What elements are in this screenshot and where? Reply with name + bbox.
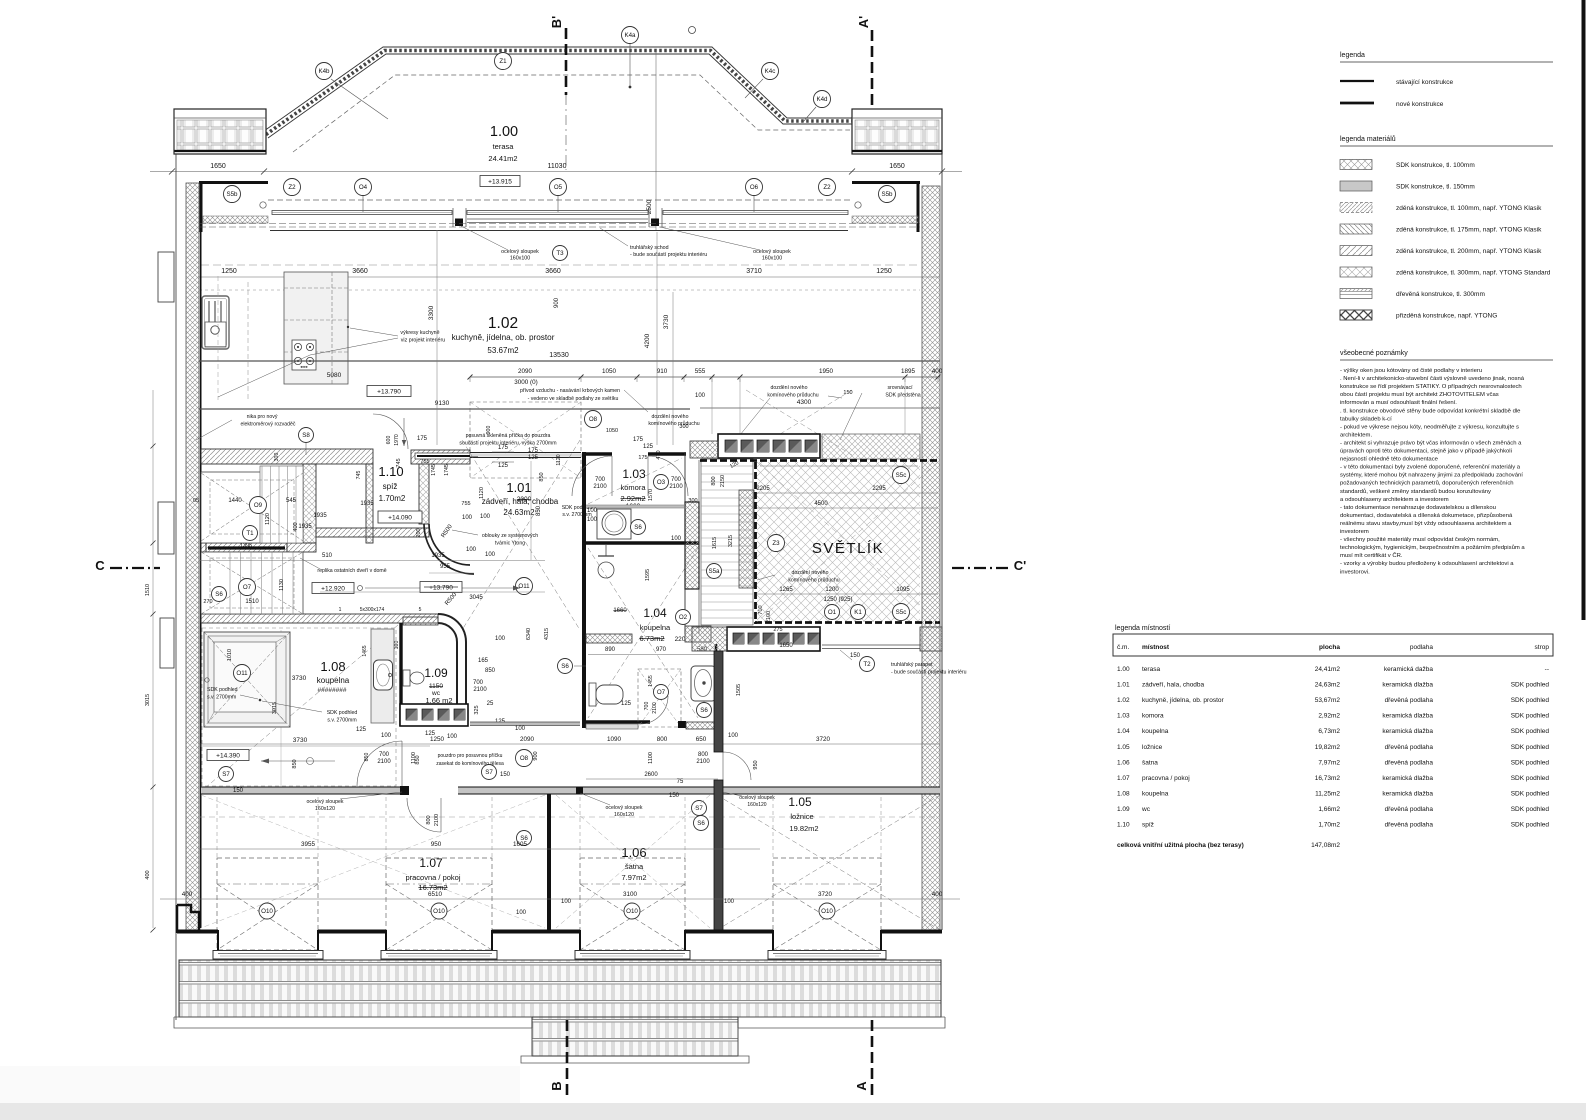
svg-text:1100: 1100 — [648, 752, 654, 764]
svg-text:pracovna / pokoj: pracovna / pokoj — [1142, 775, 1190, 782]
svg-text:komora: komora — [620, 483, 646, 492]
svg-text:součástí projektu interiéru, v: součástí projektu interiéru, výška 2700m… — [459, 441, 556, 447]
svg-text:910: 910 — [657, 368, 668, 375]
R500 arc wall lower (wc) — [438, 614, 466, 726]
wc flue block — [400, 704, 468, 726]
svg-text:S7: S7 — [485, 769, 493, 776]
svg-text:1950: 1950 — [819, 368, 834, 375]
svg-text:800: 800 — [698, 752, 709, 758]
svg-text:1100: 1100 — [411, 752, 417, 764]
svg-text:400: 400 — [182, 891, 193, 898]
material swatch 8 — [1340, 310, 1372, 320]
svg-text:O5: O5 — [554, 184, 563, 191]
svg-text:6510: 6510 — [428, 891, 443, 898]
svg-text:dřevěná podlaha: dřevěná podlaha — [1385, 759, 1434, 766]
svg-text:1745: 1745 — [431, 464, 437, 476]
svg-text:100: 100 — [447, 734, 458, 740]
svg-text:komínového průduchu: komínového průduchu — [788, 577, 839, 584]
svg-text:2.92m2: 2.92m2 — [620, 494, 645, 503]
svg-text:1.03: 1.03 — [1117, 713, 1130, 720]
svg-text:A': A' — [856, 16, 871, 28]
svg-text:1120: 1120 — [479, 487, 485, 499]
bottom gray strip — [0, 1103, 1586, 1120]
svg-text:- tato dokumentace nenahrazuje: - tato dokumentace nenahrazuje dodavatel… — [1340, 505, 1496, 511]
svg-text:+14.090: +14.090 — [388, 515, 412, 522]
svg-text:Z1: Z1 — [499, 58, 507, 65]
K markers — [316, 63, 333, 80]
svg-text:dozdění nového: dozdění nového — [771, 385, 808, 391]
svg-text:podlaha: podlaha — [1410, 644, 1434, 651]
svg-text:125: 125 — [356, 727, 367, 733]
svg-text:1650: 1650 — [889, 163, 905, 170]
svg-text:ložnice: ložnice — [1142, 744, 1163, 751]
svg-text:150: 150 — [669, 793, 680, 799]
svg-text:745: 745 — [396, 458, 402, 467]
svg-text:100: 100 — [485, 552, 496, 558]
staircase upper flight — [201, 472, 303, 543]
svg-text:########: ######## — [318, 687, 347, 694]
svg-text:160x120: 160x120 — [747, 802, 766, 808]
svg-text:100: 100 — [480, 514, 491, 520]
svg-text:SDK podhled: SDK podhled — [1511, 806, 1550, 813]
svg-text:100: 100 — [671, 536, 682, 542]
svg-text:150: 150 — [233, 788, 244, 794]
svg-text:2100: 2100 — [669, 484, 683, 490]
svg-text:O11: O11 — [518, 583, 530, 590]
svg-text:plocha: plocha — [1319, 644, 1340, 651]
svg-text:nejasností ohledně této dokume: nejasností ohledně této dokumentace — [1340, 457, 1439, 463]
svg-text:24.41m2: 24.41m2 — [488, 154, 517, 163]
svg-text:reálnému stavu stavby,musí být: reálnému stavu stavby,musí být vždy odso… — [1340, 521, 1512, 527]
svg-text:1.09: 1.09 — [424, 666, 448, 680]
svg-text:ocelový sloupek: ocelový sloupek — [501, 249, 539, 255]
svg-text:1510: 1510 — [145, 584, 151, 596]
svg-text:SDK podhled: SDK podhled — [1511, 682, 1550, 689]
svg-text:+12.920: +12.920 — [321, 586, 345, 593]
svg-text:legenda: legenda — [1340, 52, 1365, 59]
svg-text:dřevěná podlaha: dřevěná podlaha — [1385, 744, 1434, 751]
svg-text:3100: 3100 — [623, 891, 638, 898]
svg-text:S5c: S5c — [896, 609, 907, 616]
washing machine — [597, 509, 631, 539]
svg-text:2600: 2600 — [644, 772, 658, 778]
svg-text:125: 125 — [498, 463, 509, 469]
svg-text:1090: 1090 — [607, 736, 622, 743]
svg-text:100: 100 — [695, 393, 706, 399]
svg-text:970: 970 — [656, 647, 667, 653]
svg-text:+13.790: +13.790 — [429, 585, 453, 592]
svg-text:850: 850 — [364, 753, 370, 762]
svg-text:pracovna / pokoj: pracovna / pokoj — [405, 873, 460, 882]
bathtub right of 1.04 — [691, 666, 716, 701]
svg-text:keramická dlažba: keramická dlažba — [1382, 790, 1433, 797]
svg-text:investorovi.: investorovi. — [1340, 569, 1370, 575]
svg-text:3015: 3015 — [145, 694, 151, 706]
svg-text:+13.790: +13.790 — [377, 389, 401, 396]
svg-text:SVĚTLÍK: SVĚTLÍK — [812, 540, 884, 557]
svg-text:šatna: šatna — [625, 862, 644, 871]
svg-text:požadovaných technických param: požadovaných technických parametrů, dopo… — [1340, 480, 1514, 487]
svg-text:. Není-li v architekonicko-sta: . Není-li v architekonicko-stavební část… — [1340, 376, 1525, 382]
svg-text:100: 100 — [516, 910, 527, 916]
svg-text:1605: 1605 — [513, 841, 528, 848]
svg-text:investorem: investorem — [1340, 529, 1369, 535]
svg-text:komínového průduchu: komínového průduchu — [767, 392, 818, 399]
svg-text:6.73m2: 6.73m2 — [639, 634, 664, 643]
svg-text:150: 150 — [500, 772, 511, 778]
svg-text:165: 165 — [478, 658, 489, 664]
svg-text:1265: 1265 — [779, 587, 793, 593]
svg-text:truhlářský schod: truhlářský schod — [630, 245, 669, 251]
svg-text:1.08: 1.08 — [320, 659, 345, 674]
svg-text:keramická dlažba: keramická dlažba — [1382, 713, 1433, 720]
bottom exterior wall — [177, 930, 218, 934]
dormer guide dashed verticals — [216, 797, 218, 858]
svg-text:755: 755 — [461, 501, 470, 507]
svg-text:1.02: 1.02 — [1117, 697, 1130, 704]
svg-text:3720: 3720 — [816, 736, 831, 743]
dims above H4 — [199, 743, 940, 745]
svg-text:4200: 4200 — [644, 333, 651, 348]
staircase lower flight — [201, 552, 303, 614]
svetlik area — [757, 462, 920, 622]
svg-text:4315: 4315 — [544, 628, 550, 640]
door 1.08 — [357, 741, 402, 786]
svg-text:keramická dlažba: keramická dlažba — [1382, 775, 1433, 782]
svg-text:S7: S7 — [222, 771, 230, 778]
svg-text:175: 175 — [633, 437, 644, 443]
svg-text:informován a musí odsouhlasit: informován a musí odsouhlasit finální ře… — [1340, 400, 1457, 406]
svg-text:O10: O10 — [626, 908, 638, 915]
svg-text:2150: 2150 — [720, 475, 726, 487]
svg-text:SDK podhled: SDK podhled — [1511, 713, 1550, 720]
window below svetlik (O1) — [822, 644, 920, 646]
door arc spiz — [373, 414, 408, 449]
svg-text:1120: 1120 — [556, 454, 562, 465]
svg-text:+13.915: +13.915 — [488, 179, 512, 186]
svg-text:955: 955 — [440, 564, 451, 570]
hatch next to chimney bottom — [692, 627, 727, 651]
svg-text:kuchyně, jídelna, ob. prostor: kuchyně, jídelna, ob. prostor — [1142, 697, 1224, 704]
svg-text:SDK předstěna: SDK předstěna — [885, 393, 920, 399]
svg-text:100: 100 — [466, 547, 477, 553]
svg-text:160x120: 160x120 — [614, 812, 634, 818]
svg-text:6340: 6340 — [526, 628, 532, 640]
bottom room divider walls — [547, 794, 551, 930]
svg-text:510: 510 — [322, 553, 333, 559]
svg-text:3730: 3730 — [292, 675, 307, 682]
svg-text:100: 100 — [515, 726, 526, 732]
svg-text:ložnice: ložnice — [790, 812, 813, 821]
svg-text:1935: 1935 — [431, 553, 445, 559]
svg-text:16,73m2: 16,73m2 — [1315, 775, 1341, 782]
svg-text:19.82m2: 19.82m2 — [789, 824, 818, 833]
svg-text:1570: 1570 — [648, 489, 654, 501]
svg-text:600: 600 — [386, 436, 392, 445]
chimney block top — [718, 434, 820, 458]
svg-text:5: 5 — [419, 607, 422, 613]
svg-text:šatna: šatna — [1142, 759, 1158, 766]
svg-text:700: 700 — [379, 752, 390, 758]
svg-text:1650: 1650 — [210, 163, 226, 170]
svg-text:1.07: 1.07 — [1117, 775, 1130, 782]
svg-text:175: 175 — [638, 455, 647, 461]
svg-text:- bude součástí projektu inter: - bude součástí projektu interiéru — [630, 252, 707, 258]
material swatch 3 — [1340, 203, 1372, 213]
svg-text:220: 220 — [675, 636, 686, 643]
svg-text:terasa: terasa — [493, 142, 515, 151]
svg-text:900: 900 — [554, 297, 560, 308]
svg-text:S5a: S5a — [708, 568, 720, 575]
svg-text:1200: 1200 — [825, 587, 839, 593]
svg-text:2100: 2100 — [593, 484, 607, 490]
terrace roof edge band — [264, 47, 852, 138]
svg-text:SDK podhled: SDK podhled — [207, 687, 238, 693]
svg-text:147,08m2: 147,08m2 — [1311, 842, 1340, 849]
right exterior wall — [922, 186, 940, 930]
svg-text:1250: 1250 — [430, 736, 445, 743]
svg-text:545: 545 — [286, 498, 297, 504]
svg-text:2090: 2090 — [518, 368, 533, 375]
svg-text:S6: S6 — [561, 663, 569, 670]
dormer bay side walls + sills — [217, 930, 219, 952]
svg-text:SDK podhled: SDK podhled — [1511, 790, 1550, 797]
svg-text:2100: 2100 — [434, 814, 440, 826]
svg-text:1130: 1130 — [279, 579, 285, 591]
toilet 1.09 — [403, 670, 410, 686]
svg-text:S8: S8 — [302, 432, 310, 439]
svg-text:1895: 1895 — [901, 368, 916, 375]
svg-text:K4a: K4a — [624, 32, 636, 39]
svg-text:přizděná konstrukce, např. YTO: přizděná konstrukce, např. YTONG — [1396, 313, 1497, 320]
svg-text:konstrukce se řídí projektem S: konstrukce se řídí projektem STATIKY. O … — [1340, 384, 1522, 390]
svg-text:keramická dažba: keramická dažba — [1384, 666, 1434, 673]
svg-text:2295: 2295 — [872, 486, 886, 492]
svg-text:470: 470 — [656, 450, 662, 459]
svg-text:53,67m2: 53,67m2 — [1315, 697, 1341, 704]
svg-text:přívod vzduchu - nasávání krbo: přívod vzduchu - nasávání krbových kamen — [520, 388, 620, 394]
svg-text:3720: 3720 — [818, 891, 833, 898]
svg-text:19,82m2: 19,82m2 — [1315, 744, 1341, 751]
arrow 1.08 bottom — [261, 760, 335, 762]
svg-text:keramická dlažba: keramická dlažba — [1382, 682, 1433, 689]
svg-text:1935: 1935 — [360, 501, 374, 507]
sliding door pocket block — [411, 450, 470, 464]
material swatch 6 — [1340, 267, 1372, 277]
svg-text:replika ostatních dveří v domě: replika ostatních dveří v domě — [317, 568, 386, 574]
bottom-left corner step — [177, 905, 199, 933]
svg-text:O11: O11 — [236, 670, 248, 677]
svg-text:700: 700 — [671, 477, 682, 483]
pavement band — [179, 960, 941, 1017]
svg-text:11030: 11030 — [548, 163, 567, 170]
dormer X windows — [217, 858, 318, 950]
svg-text:1.70m2: 1.70m2 — [379, 494, 406, 503]
svg-text:dřevěná konstrukce, tl. 300mm: dřevěná konstrukce, tl. 300mm — [1396, 291, 1485, 298]
svg-text:technologickým, hygienickým,: technologickým, hygienickým, bezpečnostn… — [1340, 544, 1525, 551]
svg-text:K1: K1 — [854, 609, 862, 616]
svg-text:3045: 3045 — [469, 595, 483, 601]
kitchen inner wall edge — [200, 232, 202, 928]
svg-text:1250 (925): 1250 (925) — [823, 597, 852, 603]
svg-text:dozdění nového: dozdění nového — [652, 414, 689, 420]
svg-text:1.04: 1.04 — [643, 606, 667, 620]
svg-text:SDK podhled: SDK podhled — [327, 710, 358, 716]
svg-text:1660: 1660 — [613, 608, 627, 614]
svg-text:O7: O7 — [243, 584, 252, 591]
material swatch 4 — [1340, 224, 1372, 234]
svg-text:100: 100 — [728, 733, 739, 739]
svg-text:1050: 1050 — [606, 428, 618, 434]
1.08/1.09 divider — [399, 623, 402, 726]
svg-text:1.00: 1.00 — [490, 124, 518, 140]
svg-text:400: 400 — [932, 368, 943, 375]
ladder zone — [701, 459, 753, 625]
svg-text:legenda materiálů: legenda materiálů — [1340, 135, 1396, 143]
svg-text:S6: S6 — [634, 524, 642, 531]
svg-text:1150: 1150 — [429, 683, 443, 690]
svg-text:architektem.: architektem. — [1340, 432, 1372, 438]
svg-text:- architekt si vyhrazuje právo: - architekt si vyhrazuje právo být včas … — [1340, 440, 1522, 446]
svg-text:O10: O10 — [261, 908, 273, 915]
svg-text:Z3: Z3 — [772, 540, 780, 547]
svg-text:O10: O10 — [433, 908, 445, 915]
svg-text:1970: 1970 — [394, 434, 400, 446]
svg-text:1.10: 1.10 — [1117, 822, 1130, 829]
svg-text:O3: O3 — [657, 479, 666, 486]
svg-text:S6: S6 — [700, 707, 708, 714]
svg-text:13530: 13530 — [549, 352, 569, 359]
svg-text:5080: 5080 — [327, 372, 342, 379]
1.04 lower part wall — [586, 634, 632, 643]
svg-text:150: 150 — [850, 653, 861, 659]
svg-text:900: 900 — [486, 426, 492, 435]
svg-text:325: 325 — [474, 705, 480, 714]
svg-text:745: 745 — [356, 471, 362, 480]
svg-text:3710: 3710 — [746, 268, 762, 275]
svg-text:ocelový sloupek: ocelový sloupek — [606, 805, 643, 811]
kitchen island — [284, 272, 348, 384]
material swatch 2 — [1340, 181, 1372, 191]
svg-text:150: 150 — [843, 390, 852, 396]
1.04 dashed X — [588, 548, 698, 718]
svg-text:1.01: 1.01 — [506, 480, 531, 495]
steel posts — [455, 219, 463, 227]
svg-text:strop: strop — [1535, 644, 1550, 651]
svg-text:3215: 3215 — [728, 535, 734, 547]
svg-text:1.06: 1.06 — [621, 845, 646, 860]
svg-text:tabulky skladeb k-cí: tabulky skladeb k-cí — [1340, 416, 1392, 422]
svg-text:1505: 1505 — [736, 684, 742, 696]
svg-text:terasa: terasa — [1142, 666, 1160, 673]
svg-text:SDK podhled: SDK podhled — [1511, 822, 1550, 829]
svg-text:300: 300 — [274, 453, 280, 462]
svg-text:O9: O9 — [254, 502, 263, 509]
svg-text:7.97m2: 7.97m2 — [621, 873, 646, 882]
right edge black line — [1582, 0, 1586, 620]
svg-text:Z2: Z2 — [288, 184, 296, 191]
left exterior wall — [186, 183, 199, 930]
svg-text:400: 400 — [145, 870, 151, 879]
svg-text:O1: O1 — [828, 609, 837, 616]
svg-text:11,25m2: 11,25m2 — [1315, 790, 1340, 797]
svg-text:K4d: K4d — [816, 96, 828, 103]
svg-text:800: 800 — [657, 736, 668, 743]
svg-text:3660: 3660 — [352, 268, 368, 275]
svg-text:pouzdro pro posuvnou příčku: pouzdro pro posuvnou příčku — [438, 753, 503, 759]
wall H4 long — [201, 787, 400, 794]
svg-text:1615: 1615 — [712, 537, 718, 549]
svg-text:75: 75 — [677, 779, 684, 785]
svg-text:1250: 1250 — [221, 268, 237, 275]
svg-text:kuchyně, jídelna, ob. prostor: kuchyně, jídelna, ob. prostor — [452, 333, 555, 342]
svg-text:zděná konstrukce, tl. 300mm, n: zděná konstrukce, tl. 300mm, např. YTONG… — [1396, 270, 1551, 277]
svg-text:200: 200 — [416, 528, 422, 537]
svg-text:S5c: S5c — [896, 472, 907, 479]
svg-text:oblouky ze systémových: oblouky ze systémových — [482, 533, 538, 539]
left wall bumps — [158, 252, 174, 302]
svg-text:s.v. 2700mm: s.v. 2700mm — [207, 695, 236, 701]
svg-text:dřevěná podlaha: dřevěná podlaha — [1385, 697, 1434, 704]
svg-text:24.63m2: 24.63m2 — [503, 508, 535, 517]
svg-text:800: 800 — [711, 476, 717, 485]
svg-text:SDK podhled: SDK podhled — [1511, 728, 1550, 735]
svg-text:100: 100 — [381, 733, 392, 739]
svg-text:100: 100 — [561, 899, 572, 905]
svg-text:700: 700 — [595, 477, 606, 483]
svg-text:2100: 2100 — [652, 702, 658, 714]
svg-text:celková vnitřní užitná plocha: celková vnitřní užitná plocha (bez teras… — [1117, 842, 1244, 849]
svg-text:tvárnic Ytong: tvárnic Ytong — [495, 541, 525, 547]
svg-text:S5b: S5b — [226, 191, 238, 198]
svg-text:100: 100 — [495, 636, 506, 642]
svg-text:1595: 1595 — [645, 569, 651, 581]
svg-text:O8: O8 — [589, 416, 598, 423]
svg-text:všeobecné poznámky: všeobecné poznámky — [1340, 350, 1408, 357]
svg-text:T3: T3 — [556, 250, 564, 257]
wall H1 kitchen/back rooms — [201, 449, 373, 464]
room 1.08 koupelna — [202, 628, 396, 786]
svg-text:dokumentaci, dodavatelská a dí: dokumentaci, dodavatelská a dílenská dok… — [1340, 512, 1513, 519]
svg-text:100: 100 — [462, 515, 473, 521]
svg-text:- vedeno ve skladbě podlahy ze: - vedeno ve skladbě podlahy ze světíku — [528, 396, 619, 402]
svg-text:ocelový sloupek: ocelový sloupek — [739, 795, 775, 801]
svg-text:400: 400 — [932, 891, 943, 898]
svg-text:125: 125 — [643, 444, 654, 450]
svg-text:B': B' — [549, 16, 564, 28]
svg-text:ocelový sloupek: ocelový sloupek — [307, 799, 344, 805]
svg-text:viz projekt interiéru: viz projekt interiéru — [401, 338, 446, 344]
svg-text:25: 25 — [487, 701, 494, 707]
svg-text:160x100: 160x100 — [510, 256, 530, 262]
window markers — [224, 186, 241, 203]
svg-text:koupelna: koupelna — [1142, 790, 1169, 797]
svg-text:truhlářský parapet: truhlářský parapet — [891, 662, 933, 668]
svg-text:950: 950 — [431, 841, 442, 848]
svg-text:. tl. konstrukce obvodové stěn: . tl. konstrukce obvodové stěny bude odp… — [1340, 408, 1521, 414]
svg-text:1: 1 — [339, 607, 342, 613]
svg-text:5x300x174: 5x300x174 — [360, 607, 385, 613]
spiz left wall — [366, 464, 373, 543]
1.04 bottom walls — [586, 724, 638, 729]
svg-text:koupelna: koupelna — [317, 676, 350, 685]
svg-text:srovnávací: srovnávací — [887, 385, 913, 391]
svg-text:a odsouhlaseny architektem a i: a odsouhlaseny architektem a investorem — [1340, 497, 1449, 503]
svg-text:- všechny použité materiály mu: - všechny použité materiály musí odpovíd… — [1340, 537, 1500, 543]
svg-text:A: A — [854, 1081, 869, 1091]
svg-text:zádveří, hala, chodba: zádveří, hala, chodba — [1142, 682, 1205, 689]
svg-text:1.09: 1.09 — [1117, 806, 1130, 813]
